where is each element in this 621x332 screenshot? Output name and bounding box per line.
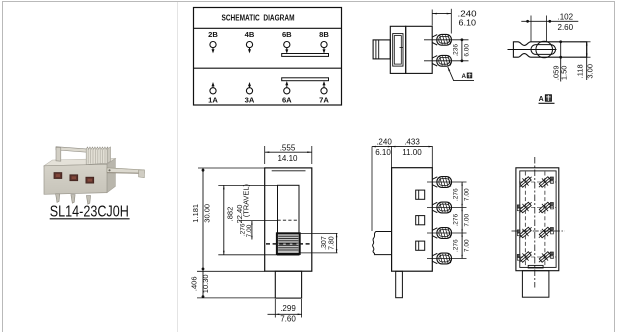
terminal 4B bbox=[245, 30, 255, 53]
page border top bbox=[2, 1, 615, 3]
rear view: row centerline 2 bbox=[519, 207, 557, 209]
page border left bbox=[2, 1, 4, 332]
dimension .102/2.60 (hole) bbox=[521, 13, 578, 42]
rear view: terminal 4 bbox=[536, 199, 554, 217]
side view 2: body bbox=[392, 168, 433, 272]
dimension .406/10.30 (bottom extension) bbox=[189, 274, 275, 298]
side view 2: actuator lever (broken) bbox=[373, 232, 392, 255]
side view 2: terminal 1 centerline bbox=[427, 181, 467, 183]
terminal 3A bbox=[245, 82, 255, 105]
svg-text:.276: .276 bbox=[452, 239, 459, 252]
svg-text:(TRAVEL): (TRAVEL) bbox=[243, 184, 250, 217]
side view 2: terminal 1 bbox=[432, 177, 437, 187]
dimension .299/7.60 (extension width) bbox=[268, 299, 302, 324]
svg-text:7.00: 7.00 bbox=[464, 239, 471, 252]
svg-text:A: A bbox=[539, 96, 544, 103]
svg-text:.406: .406 bbox=[189, 276, 198, 291]
product photo: slide switch bbox=[44, 147, 144, 205]
side view: body bbox=[406, 26, 433, 73]
rear view: actuator block bbox=[522, 271, 549, 298]
svg-text:.236: .236 bbox=[453, 44, 460, 57]
svg-text:6B: 6B bbox=[282, 30, 292, 39]
dimension .240/6.10 (terminal length) bbox=[432, 9, 477, 34]
schematic diagram frame bbox=[194, 8, 342, 106]
side view: actuator knob bbox=[373, 40, 390, 59]
common bar 5A-7A bbox=[282, 78, 329, 81]
svg-text:2.60: 2.60 bbox=[558, 23, 574, 32]
side view: terminal centerlines bbox=[424, 39, 469, 41]
side view 2: hole 1 bbox=[416, 190, 425, 199]
svg-text:SCHEMATIC DIAGRAM: SCHEMATIC DIAGRAM bbox=[222, 13, 295, 23]
svg-text:4B: 4B bbox=[245, 30, 255, 39]
terminal 6B bbox=[282, 30, 292, 54]
svg-text:6.10: 6.10 bbox=[375, 148, 391, 157]
dimension .240/6.10 (actuator) bbox=[372, 138, 392, 231]
svg-text:6.10: 6.10 bbox=[459, 19, 477, 28]
common bar 6B-8B bbox=[282, 54, 329, 57]
svg-text:.433: .433 bbox=[404, 138, 420, 147]
dimension .276/7.00 (terminal pitch 3) bbox=[452, 233, 470, 259]
rear view: horizontal centerline bbox=[512, 230, 565, 232]
svg-text:SL14-23CJ0H: SL14-23CJ0H bbox=[50, 204, 129, 221]
rear view: column centerline 1 bbox=[524, 172, 526, 267]
svg-text:.882: .882 bbox=[226, 207, 235, 222]
front view: slider knob (hatched) bbox=[266, 233, 311, 254]
rear view: terminal 6 bbox=[536, 224, 554, 242]
side view 2: terminal 3 centerline bbox=[427, 232, 467, 234]
side view 2: terminal 3 bbox=[432, 228, 437, 238]
svg-text:.118: .118 bbox=[575, 64, 584, 78]
dimension .882/22.40 (slot) bbox=[218, 185, 277, 254]
front view: bottom mounting extension bbox=[275, 271, 301, 298]
svg-text:3A: 3A bbox=[245, 96, 255, 105]
svg-text:.276: .276 bbox=[452, 214, 459, 227]
svg-text:7.00: 7.00 bbox=[464, 188, 471, 201]
rear view: terminal 8 bbox=[536, 248, 554, 266]
rear view: outer body bbox=[516, 168, 559, 271]
rear view: terminal 7 bbox=[516, 248, 534, 266]
svg-text:.307: .307 bbox=[321, 236, 328, 250]
terminal 1A bbox=[208, 82, 218, 105]
svg-text:1A: 1A bbox=[208, 96, 218, 105]
svg-text:.240: .240 bbox=[376, 138, 392, 147]
svg-text:.299: .299 bbox=[280, 304, 296, 313]
dimension .059/1.50 bbox=[551, 40, 568, 81]
side view 2: hole 2 bbox=[416, 216, 425, 225]
svg-text:8B: 8B bbox=[319, 30, 329, 39]
svg-text:7.00: 7.00 bbox=[464, 214, 471, 227]
label A-detail (leader) bbox=[462, 73, 472, 80]
rear view: terminal 5 bbox=[516, 224, 534, 242]
rear view: inner body bbox=[520, 171, 556, 268]
svg-text:10.30: 10.30 bbox=[201, 274, 210, 293]
rear view: bottom tab bbox=[528, 265, 543, 268]
front view: slot bbox=[278, 185, 300, 255]
svg-text:7A: 7A bbox=[319, 96, 329, 105]
svg-text:7.60: 7.60 bbox=[280, 315, 296, 324]
rear view: row centerline 4 bbox=[519, 256, 557, 258]
leader to detail A bbox=[448, 67, 474, 81]
dimension .118/3.00 (terminal width) bbox=[575, 42, 594, 80]
svg-text:7.80: 7.80 bbox=[328, 236, 335, 250]
rear view: row centerline 1 bbox=[519, 181, 557, 183]
detail A: circle bbox=[536, 41, 553, 58]
terminal 7A bbox=[319, 81, 329, 105]
front view: top recess line bbox=[272, 170, 306, 172]
dimension 1.181/30.00 (height) bbox=[191, 168, 265, 298]
page border right bbox=[614, 1, 616, 332]
svg-text:3.00: 3.00 bbox=[585, 64, 594, 79]
svg-text:.240: .240 bbox=[458, 9, 478, 18]
svg-text:6A: 6A bbox=[282, 96, 292, 105]
side view: mounting plate bbox=[390, 26, 405, 73]
side view 2: terminal 2 bbox=[432, 202, 437, 212]
terminal 8B bbox=[319, 30, 329, 54]
front view: slot centerline (dashed) bbox=[278, 219, 300, 221]
dimension .276/7.00 TRAVEL bbox=[239, 184, 278, 239]
svg-text:A: A bbox=[462, 73, 467, 80]
svg-text:.102: .102 bbox=[558, 13, 574, 22]
svg-text:2B: 2B bbox=[208, 30, 218, 39]
side view: terminal B bbox=[432, 35, 437, 45]
svg-text:14.10: 14.10 bbox=[277, 154, 298, 163]
terminal 6A bbox=[282, 81, 292, 105]
detail A: slot hole bbox=[531, 45, 556, 55]
rear view: column centerline 2 bbox=[544, 172, 546, 267]
rear view: terminal 3 bbox=[516, 199, 534, 217]
dimension .276/7.00 (terminal pitch 1) bbox=[452, 182, 470, 208]
detail A: terminal outline bbox=[513, 42, 586, 57]
side view 2: terminal 4 bbox=[432, 253, 437, 263]
dimension .307/7.80 (slider) bbox=[300, 233, 338, 253]
svg-text:.276: .276 bbox=[452, 188, 459, 201]
front view: body outline bbox=[265, 168, 312, 271]
side view: terminal A bbox=[432, 56, 437, 66]
svg-text:1.181: 1.181 bbox=[191, 204, 200, 223]
svg-text:30.00: 30.00 bbox=[203, 204, 212, 223]
rear view: terminal 2 bbox=[536, 173, 554, 191]
dimension .236/6.00 (terminal pitch) bbox=[453, 38, 471, 62]
side view 2: terminal 4 centerline bbox=[427, 258, 467, 260]
dimension .555/14.10 (width) bbox=[265, 144, 312, 164]
label A-detail (view title) bbox=[539, 95, 555, 104]
rear view: vertical centerline bbox=[534, 157, 536, 288]
side view 2: bottom peg bbox=[396, 271, 403, 297]
table column separator bbox=[177, 2, 179, 332]
svg-text:11.00: 11.00 bbox=[402, 148, 422, 157]
svg-text:1.50: 1.50 bbox=[560, 65, 569, 80]
dimension .276/7.00 (terminal pitch 2) bbox=[452, 208, 470, 234]
rear view: terminal 1 bbox=[516, 173, 534, 191]
side view 2: hole 3 bbox=[416, 241, 425, 250]
terminal 2B bbox=[208, 30, 218, 53]
dimension .433/11.00 (body depth) bbox=[392, 138, 433, 168]
side view 2: terminal 2 centerline bbox=[427, 207, 467, 209]
svg-text:7.00: 7.00 bbox=[246, 224, 253, 237]
svg-text:.555: .555 bbox=[280, 144, 296, 153]
detail A: centerline bbox=[508, 49, 557, 51]
svg-text:6.00: 6.00 bbox=[464, 44, 471, 57]
